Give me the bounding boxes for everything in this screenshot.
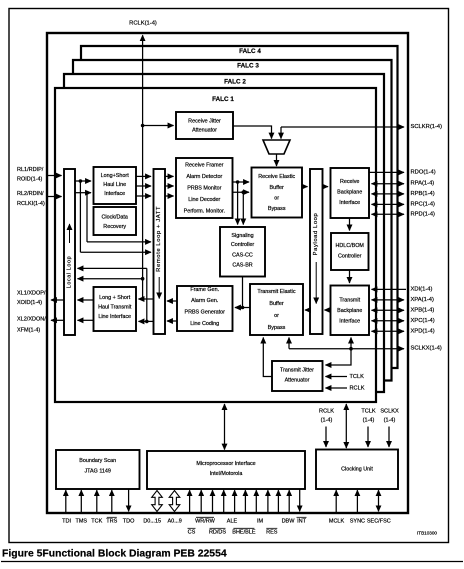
wire microprocessor control input ALE <box>223 490 225 512</box>
svg-text:or: or <box>274 313 279 319</box>
svg-text:Bypass: Bypass <box>268 206 286 212</box>
block Clock/Data Recovery <box>94 207 137 235</box>
wire microprocessor control input spare2 <box>288 490 290 512</box>
wire MCLK input <box>335 490 337 512</box>
wire TDI input <box>65 490 67 512</box>
wire FALC1 to Clocking Unit bidirectional <box>345 404 347 448</box>
svg-text:Payload Loop: Payload Loop <box>313 213 319 256</box>
wire TDO output <box>128 489 130 511</box>
svg-text:Frame Gen.: Frame Gen. <box>190 287 219 293</box>
wire clock mux output to Receive Elastic Buffer <box>276 154 278 166</box>
svg-text:Bypass: Bypass <box>268 325 286 331</box>
wire line interface to Remote Loop row1 <box>136 175 151 177</box>
svg-text:Intel/Motorola: Intel/Motorola <box>210 471 243 477</box>
wire branch to Local Loop return upper <box>78 278 143 280</box>
wire microprocessor control input IM <box>244 490 246 512</box>
svg-text:DBW: DBW <box>282 519 296 525</box>
wire microprocessor control input DBW <box>267 490 269 512</box>
wire XPC bidirectional row <box>372 320 405 322</box>
junction framer-elastic lower <box>242 190 246 194</box>
junction RCLK trunk to local loop return <box>141 277 145 281</box>
svg-text:XPD(1-4): XPD(1-4) <box>411 328 435 334</box>
wire FALC1 to Microprocessor Interface bidirectional <box>224 404 226 450</box>
svg-text:Interface: Interface <box>339 319 360 325</box>
svg-text:BHE/BLE: BHE/BLE <box>232 530 256 536</box>
svg-text:FALC 1: FALC 1 <box>212 96 234 103</box>
junction signaling to frame-gen wire <box>241 306 245 310</box>
svg-text:RES: RES <box>266 530 278 536</box>
block Boundary Scan JTAG 1149 <box>56 450 140 489</box>
wire into transmit line interface upper <box>139 298 143 300</box>
svg-text:RL1/RDIP/: RL1/RDIP/ <box>17 167 44 173</box>
FALC 4 frame <box>81 46 398 368</box>
svg-text:XOID(1-4): XOID(1-4) <box>17 300 42 306</box>
wire RL2 input to Local Loop <box>47 196 62 198</box>
svg-text:PRBS Generator: PRBS Generator <box>184 310 225 316</box>
wire Local Loop to line interface lower <box>75 192 91 194</box>
svg-text:RPD(1-4): RPD(1-4) <box>411 211 436 217</box>
wire XPA bidirectional row <box>372 299 405 301</box>
svg-text:Microprocessor Interface: Microprocessor Interface <box>196 461 255 467</box>
wire RPD bidirectional row <box>372 213 405 215</box>
svg-text:Attenuator: Attenuator <box>192 128 217 134</box>
wire XL2 tap into Local Loop right edge <box>78 319 94 321</box>
svg-text:Haul Transmit: Haul Transmit <box>98 305 132 311</box>
wire XL2 output from Local Loop edge to pin <box>51 319 64 321</box>
svg-text:XL2/XDON/: XL2/XDON/ <box>17 317 46 323</box>
wire Payload Loop to Transmit Elastic <box>305 309 310 311</box>
svg-text:Line Interface: Line Interface <box>98 314 131 320</box>
wire stub to Remote Loop left edge lower <box>147 320 154 322</box>
svg-text:Line Coding: Line Coding <box>190 321 219 327</box>
wire TCLK into Clocking Unit <box>367 427 369 448</box>
svg-text:Long + Short: Long + Short <box>99 295 131 301</box>
wire microprocessor control input RD/DS <box>212 490 214 512</box>
svg-text:SCLKX(1-4): SCLKX(1-4) <box>411 346 442 352</box>
svg-text:WR/RW: WR/RW <box>195 519 216 525</box>
junction RCLK trunk to jitter attenuator <box>141 124 145 128</box>
block Receive Jitter Attenuator <box>176 112 233 139</box>
junction transmit feed <box>145 320 149 324</box>
wire Receive Backplane to HDLC/BOM Controller <box>349 218 351 231</box>
svg-text:Controller: Controller <box>231 242 255 248</box>
wire Remote Loop to Receive Framer row3 <box>165 195 174 197</box>
block Clocking Unit <box>316 450 398 490</box>
svg-text:Receive Jitter: Receive Jitter <box>188 119 221 125</box>
svg-text:SCLKR(1-4): SCLKR(1-4) <box>411 124 443 130</box>
block Local Loop <box>64 169 75 335</box>
wire Payload Loop to Receive Backplane <box>323 186 329 188</box>
FALC 3 frame <box>73 60 392 381</box>
svg-text:RL2/RDIN/: RL2/RDIN/ <box>17 191 44 197</box>
block Receive Backplane Interface <box>331 168 370 218</box>
wire RCLK trunk branch to Receive Jitter Attenuator input <box>143 125 174 127</box>
wire SYNC input <box>356 490 358 512</box>
wire drop to Signaling Controller right <box>242 192 244 224</box>
wire RPB bidirectional row <box>372 193 405 195</box>
wire Remote Loop output corner to Local Loop return lower <box>78 267 147 269</box>
wire Receive Framer to Receive Elastic upper <box>233 181 250 183</box>
svg-text:ITB10300: ITB10300 <box>417 531 437 536</box>
wire line interface to Remote Loop row2 <box>136 185 151 187</box>
svg-text:JTAG 1149: JTAG 1149 <box>84 469 110 475</box>
svg-text:(1-4): (1-4) <box>321 418 333 424</box>
wire SCLKX net to Transmit Jitter Attenuator top input <box>326 349 352 365</box>
svg-text:Perform. Monitor.: Perform. Monitor. <box>184 209 225 215</box>
svg-text:D0...15: D0...15 <box>143 519 161 525</box>
svg-text:CAS-BR: CAS-BR <box>232 262 252 268</box>
block Long+Short Haul Line Interface <box>94 167 137 204</box>
wire XDI input row <box>372 288 407 290</box>
svg-text:(1-4): (1-4) <box>363 418 375 424</box>
svg-text:TRS: TRS <box>106 519 117 525</box>
svg-text:CAS-CC: CAS-CC <box>232 253 253 259</box>
svg-text:Signaling: Signaling <box>231 233 253 239</box>
wire SEC/FSC bidirectional <box>378 490 380 511</box>
wire Receive Elastic to Payload Loop <box>302 186 308 188</box>
svg-text:Interface: Interface <box>339 200 360 206</box>
svg-text:INT: INT <box>297 519 307 525</box>
svg-text:Transmit Elastic: Transmit Elastic <box>257 289 295 295</box>
svg-text:SEC/FSC: SEC/FSC <box>367 519 391 525</box>
wire microprocessor control input spare1 <box>277 490 279 512</box>
wire HDLC/BOM to Transmit Backplane <box>349 270 351 283</box>
svg-text:Clock/Data: Clock/Data <box>102 215 128 221</box>
wire RCLK vertical trunk with up arrow to RCLK(1-4) pin <box>142 35 144 299</box>
svg-text:Transmit Jitter: Transmit Jitter <box>280 368 314 374</box>
svg-text:Buffer: Buffer <box>270 185 284 191</box>
wire branch down to Remote Loop upper <box>79 181 81 252</box>
svg-text:Clocking Unit: Clocking Unit <box>341 467 373 473</box>
junction SCLKX net <box>349 347 353 351</box>
FALC 2 frame <box>64 74 384 392</box>
svg-text:RCLKI(1-4): RCLKI(1-4) <box>17 201 45 207</box>
svg-text:TMS: TMS <box>75 519 87 525</box>
junction on upper line-interface wire <box>79 179 83 183</box>
clock mux trapezoid <box>263 140 290 154</box>
svg-text:RCLK(1-4): RCLK(1-4) <box>129 21 157 27</box>
svg-text:TCK: TCK <box>91 519 102 525</box>
wire RCLK into Clocking Unit <box>325 427 327 448</box>
svg-text:Buffer: Buffer <box>269 301 283 307</box>
wire Remote Loop to Receive Framer row1 <box>165 175 174 177</box>
svg-text:MCLK: MCLK <box>329 519 345 525</box>
wire RCLK into Transmit Jitter Attenuator <box>326 387 348 389</box>
svg-text:CS: CS <box>188 530 196 536</box>
wire RPA bidirectional row <box>372 183 405 185</box>
wire TCLK into Transmit Jitter Attenuator <box>326 376 348 378</box>
wire TCK input <box>96 490 98 512</box>
wire drop to Signaling Controller left <box>237 182 239 225</box>
wire TRS input <box>111 490 113 512</box>
wire microprocessor control input WR/RW <box>200 490 202 512</box>
svg-text:FALC 3: FALC 3 <box>237 63 259 70</box>
svg-text:RPB(1-4): RPB(1-4) <box>411 191 435 197</box>
block Payload Loop <box>310 169 323 334</box>
svg-text:Receive Elastic: Receive Elastic <box>258 174 295 180</box>
svg-text:XFM(1-4): XFM(1-4) <box>17 328 40 334</box>
svg-text:ALE: ALE <box>227 519 238 525</box>
svg-text:Transmit: Transmit <box>339 298 360 304</box>
svg-text:Local Loop: Local Loop <box>67 256 73 288</box>
wire SCLKX net up into Transmit Backplane bottom <box>350 338 352 349</box>
junction RCLK trunk bottom <box>141 297 145 301</box>
svg-text:Recovery: Recovery <box>103 224 126 230</box>
svg-text:RD/DS: RD/DS <box>209 530 226 536</box>
svg-text:Figure 5Functional Block Diagr: Figure 5Functional Block Diagram PEB 225… <box>2 549 227 560</box>
svg-text:SCLKX: SCLKX <box>380 409 399 415</box>
svg-text:Receive: Receive <box>340 179 359 185</box>
svg-text:TDI: TDI <box>62 519 71 525</box>
svg-text:FALC 4: FALC 4 <box>239 48 261 55</box>
block Transmit Backplane Interface <box>331 286 370 336</box>
wire SCLKX net to Transmit Elastic bottom <box>288 338 290 349</box>
block Frame Gen. Alarm Gen. PRBS Generator Line Coding <box>177 286 233 331</box>
svg-text:RPC(1-4): RPC(1-4) <box>411 201 436 207</box>
FALC 1 frame <box>55 88 376 402</box>
block Transmit Elastic Buffer or Bypass <box>250 284 303 335</box>
wire into transmit line interface lower <box>139 320 147 322</box>
wire Remote Loop to Receive Framer row2 <box>165 185 174 187</box>
svg-text:XDI(1-4): XDI(1-4) <box>411 286 433 292</box>
wire RDO output row <box>369 171 404 173</box>
svg-text:ROID(1-4): ROID(1-4) <box>17 177 43 183</box>
junction framer-elastic upper <box>236 180 240 184</box>
svg-text:RCLK: RCLK <box>350 386 365 392</box>
wire Receive Jitter Attenuator output to clock mux <box>233 126 272 139</box>
wire XL1 output from Local Loop edge to pin <box>51 299 64 301</box>
wire Frame Gen to Remote Loop tap lower <box>167 320 177 322</box>
svg-text:PRBS Monitor: PRBS Monitor <box>187 186 221 192</box>
wire microprocessor control input RES <box>255 490 257 512</box>
wire XL1 tap into Local Loop right edge <box>78 299 94 301</box>
wire Signaling Controller down to frame-gen wire <box>242 277 244 308</box>
svg-text:HDLC/BOM: HDLC/BOM <box>335 243 364 249</box>
wire INT output <box>299 489 301 511</box>
svg-text:Backplane: Backplane <box>337 190 362 196</box>
svg-text:or: or <box>274 196 279 202</box>
wire XPD bidirectional row <box>372 330 405 332</box>
wire SCLKX into Clocking Unit <box>388 427 390 448</box>
caption underline rule <box>1 561 463 563</box>
wire XPB bidirectional row <box>372 309 405 311</box>
svg-text:Controller: Controller <box>338 254 362 260</box>
wire SCLKX net horizontal to pin <box>289 348 404 350</box>
wire SCLKR line to clock mux and pin <box>281 126 404 128</box>
svg-text:RPA(1-4): RPA(1-4) <box>411 181 435 187</box>
block HDLC/BOM Controller <box>331 233 369 270</box>
svg-text:TCLK: TCLK <box>361 409 376 415</box>
wire TMS input <box>80 490 82 512</box>
svg-text:RCLK: RCLK <box>319 409 334 415</box>
svg-text:IM: IM <box>257 519 264 525</box>
svg-text:Line Decoder: Line Decoder <box>188 197 220 203</box>
wire Receive Framer to Receive Elastic lower <box>233 191 250 193</box>
bus arrow D0..15 hollow bidirectional <box>152 491 163 512</box>
svg-text:A0...9: A0...9 <box>168 519 182 525</box>
svg-text:TDO: TDO <box>123 519 135 525</box>
block Receive Framer / Alarm Detector / PRBS Monitor / Line Decoder / Perform. Monitor <box>176 158 233 218</box>
wire RL1 input to Local Loop <box>47 175 62 177</box>
bus arrow A0..9 hollow bidirectional <box>169 491 180 512</box>
wire Local Loop to line interface upper <box>75 180 91 182</box>
wire Transmit Jitter Attenuator output up to Transmit Elastic <box>263 338 272 377</box>
wire stub to Remote Loop left edge upper <box>143 298 154 300</box>
svg-text:Attenuator: Attenuator <box>285 378 310 384</box>
wire branch down to Remote Loop lower <box>86 193 88 242</box>
svg-text:Remote Loop + JATT: Remote Loop + JATT <box>156 206 162 272</box>
wire Transmit Elastic to Frame Gen <box>235 307 250 309</box>
svg-text:Boundary Scan: Boundary Scan <box>79 458 116 464</box>
svg-text:Long+Short: Long+Short <box>101 173 130 179</box>
svg-text:XL1/XDOP/: XL1/XDOP/ <box>17 291 46 297</box>
block Receive Elastic Buffer or Bypass <box>252 168 303 218</box>
block Signaling Controller CAS-CC CAS-BR <box>220 227 265 277</box>
svg-text:XPA(1-4): XPA(1-4) <box>411 297 434 303</box>
svg-text:TCLK: TCLK <box>350 374 365 380</box>
chip outer boundary box PEB 22554 <box>47 33 408 513</box>
svg-text:XPB(1-4): XPB(1-4) <box>411 307 435 313</box>
block Microprocessor Interface Intel/Motorola <box>147 451 305 489</box>
svg-text:Haul Line: Haul Line <box>103 182 126 188</box>
svg-text:Backplane: Backplane <box>337 308 362 314</box>
wire microprocessor control input BHE/BLE <box>234 490 236 512</box>
wire Frame Gen to Remote Loop tap upper <box>167 300 177 302</box>
svg-text:XPC(1-4): XPC(1-4) <box>411 318 435 324</box>
block Remote Loop + JATT <box>154 169 166 334</box>
block Long + Short Haul Transmit Line Interface <box>94 287 137 331</box>
wire line interface to Remote Loop row3 <box>136 195 151 197</box>
svg-text:Alarm Gen.: Alarm Gen. <box>191 298 218 304</box>
wire Transmit Backplane to Payload Loop <box>325 309 331 311</box>
wire RPC bidirectional row <box>372 203 405 205</box>
wire microprocessor control input CS <box>189 490 191 512</box>
svg-text:Interface: Interface <box>104 191 125 197</box>
svg-text:(1-4): (1-4) <box>384 418 396 424</box>
svg-text:Receive Framer: Receive Framer <box>185 163 224 169</box>
svg-text:RDO(1-4): RDO(1-4) <box>411 169 436 175</box>
block Transmit Jitter Attenuator <box>272 361 323 391</box>
svg-text:FALC 2: FALC 2 <box>224 79 246 86</box>
junction on lower line-interface wire <box>85 191 89 195</box>
svg-text:Alarm Detector: Alarm Detector <box>186 174 222 180</box>
svg-text:SYNC: SYNC <box>350 519 365 525</box>
